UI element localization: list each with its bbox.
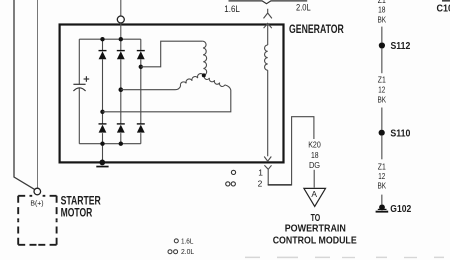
wire col1 [102, 39, 104, 50]
legend circle 1.6L [174, 239, 178, 243]
wire K20 routing [268, 117, 314, 185]
wires rectifier rails and columns [79, 39, 141, 160]
svg-text:POWERTRAIN: POWERTRAIN [285, 223, 346, 234]
svg-text:2.0L: 2.0L [181, 249, 194, 256]
wire battery feed left 2 [37, 0, 39, 188]
junction node stator center [202, 73, 206, 77]
connector triangle A to PCM [304, 188, 326, 206]
svg-text:CONTROL MODULE: CONTROL MODULE [273, 235, 357, 246]
junction node top rail col1 [100, 37, 104, 41]
faint bottom remnants [245, 257, 444, 259]
diode D5 bottom [117, 124, 125, 133]
junction node bottom rail col1 [100, 142, 104, 146]
stator coil phase C [204, 76, 225, 87]
wire B+ vertical above generator [120, 0, 122, 16]
svg-text:BK: BK [378, 95, 387, 105]
svg-text:Z1: Z1 [378, 162, 386, 172]
splice S112 [379, 42, 385, 48]
junction node bottom rail col2 [119, 142, 123, 146]
partial cut text top right [442, 0, 450, 2]
svg-text:1.6L: 1.6L [181, 238, 194, 245]
svg-text:G102: G102 [390, 204, 411, 215]
starter B(+) terminal circle [34, 188, 41, 195]
svg-text:DG: DG [309, 160, 320, 170]
svg-text:18: 18 [311, 150, 319, 160]
stator coil phase B [180, 74, 203, 87]
field coil L1 [265, 45, 268, 70]
option circles pin2 2.0L [226, 182, 230, 186]
connector top male arrow into generator [264, 23, 272, 28]
stator coil phase A [203, 41, 207, 75]
wire cap bottom [78, 88, 80, 144]
junction node col2 phase B [119, 87, 124, 92]
capacitor plus sign [84, 76, 90, 82]
wire field feed [267, 23, 269, 45]
svg-text:1: 1 [258, 167, 263, 177]
wire top rail [79, 38, 141, 40]
svg-text:B(+): B(+) [30, 198, 44, 207]
svg-text:K20: K20 [308, 140, 321, 150]
svg-text:Z1: Z1 [378, 75, 386, 85]
svg-text:2: 2 [258, 179, 263, 189]
junction node col3 phase A [139, 65, 143, 69]
svg-text:1.6L: 1.6L [224, 4, 240, 15]
wire phase A step [141, 41, 203, 67]
svg-text:S110: S110 [390, 129, 410, 140]
connector bottom arrow out of generator [264, 157, 271, 162]
generator box [60, 25, 284, 163]
diode D6 bottom [137, 124, 145, 133]
wire battery feed left 1 [14, 0, 35, 189]
connector bottom female half [264, 165, 271, 185]
diode D2 top [117, 51, 125, 60]
diode D3 top [137, 51, 145, 60]
wire bottom rail [79, 143, 141, 145]
ground circuit wire Z1 segments [381, 27, 383, 205]
wire B+ into box [120, 23, 122, 39]
svg-text:12: 12 [378, 171, 385, 181]
svg-text:S112: S112 [391, 41, 411, 52]
svg-text:BK: BK [378, 181, 387, 191]
svg-text:12: 12 [378, 85, 385, 95]
svg-text:C10: C10 [437, 3, 450, 14]
svg-text:TO: TO [311, 213, 321, 224]
diode D1 top [99, 51, 107, 60]
junction node top rail col2 [119, 37, 123, 41]
wire col3 [140, 39, 142, 50]
wire field to bottom [267, 70, 269, 156]
option circle pin1 1.6L [231, 170, 235, 174]
capacitor C1 [73, 84, 85, 91]
legend circles 2.0L [168, 250, 172, 254]
options merge V 1.6L/2.0L [229, 1, 308, 4]
splice S110 [379, 130, 385, 136]
junction node col1 phase C [100, 110, 104, 114]
diode D4 bottom [99, 124, 107, 133]
wire to PCM triangle [313, 170, 315, 188]
svg-text:BK: BK [378, 15, 387, 25]
starter motor box (dashed) [18, 196, 56, 245]
wire phase B horizontal [121, 86, 181, 90]
svg-text:GENERATOR: GENERATOR [289, 22, 344, 36]
svg-text:2.0L: 2.0L [296, 2, 311, 13]
svg-text:A: A [311, 189, 317, 199]
connector top female half [264, 9, 272, 19]
wire phase C down and across [103, 85, 231, 112]
svg-text:18: 18 [378, 5, 386, 15]
generator B+ terminal circle [117, 16, 124, 23]
wire col2 [120, 39, 122, 50]
ground generator case [96, 160, 108, 168]
ground G102 symbol [376, 204, 389, 212]
svg-text:MOTOR: MOTOR [61, 206, 93, 219]
wire cap top [78, 39, 80, 84]
